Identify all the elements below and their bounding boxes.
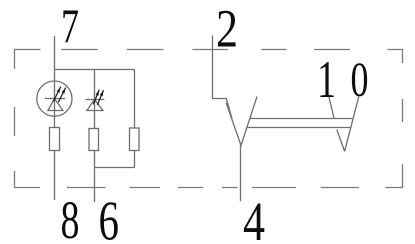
svg-text:6: 6 xyxy=(99,190,120,244)
svg-text:2: 2 xyxy=(216,0,238,58)
svg-text:1: 1 xyxy=(317,51,336,109)
svg-text:7: 7 xyxy=(61,0,79,54)
svg-text:4: 4 xyxy=(243,191,265,244)
svg-text:0: 0 xyxy=(351,52,369,107)
svg-text:8: 8 xyxy=(61,190,80,244)
